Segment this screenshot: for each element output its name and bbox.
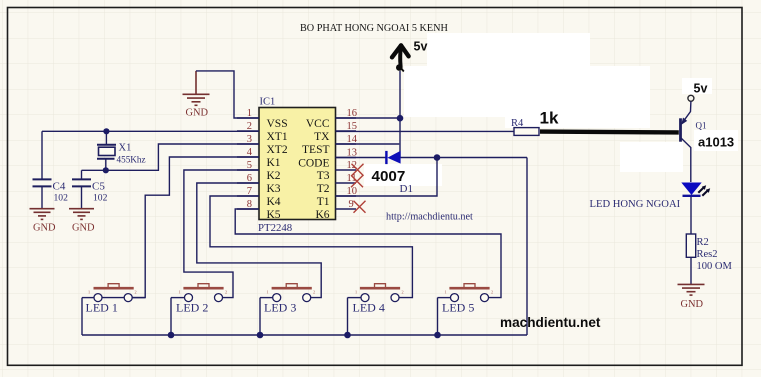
svg-text:VSS: VSS (267, 118, 288, 130)
svg-text:T2: T2 (317, 183, 330, 195)
node D1 junction (434, 154, 441, 161)
pin numbers left (247, 108, 253, 210)
svg-text:GND: GND (33, 223, 56, 234)
wire LED1 to rail (81, 298, 83, 335)
svg-text:2: 2 (225, 290, 227, 295)
wire TEST (pin14) (336, 143, 400, 145)
wire XT1 rail (pin2) (42, 130, 259, 132)
svg-text:11: 11 (347, 173, 357, 184)
svg-text:LED 1: LED 1 (86, 301, 118, 315)
svg-text:GND: GND (681, 299, 704, 310)
svg-text:13: 13 (347, 147, 358, 158)
pin numbers right (347, 108, 358, 210)
svg-text:a1013: a1013 (698, 135, 734, 150)
svg-text:1: 1 (179, 290, 181, 295)
IC1 PT2248 (259, 108, 336, 220)
wire TX (pin15) to R4 (336, 130, 515, 132)
svg-text:102: 102 (54, 193, 69, 204)
button LED 1 (82, 284, 145, 315)
svg-text:VCC: VCC (306, 118, 330, 130)
node rail LED3 (257, 332, 264, 339)
svg-text:1: 1 (267, 290, 269, 295)
ground (bottom right) (678, 284, 705, 295)
svg-text:2: 2 (402, 290, 404, 295)
wire thick hand-drawn R4 to Q1 base (540, 129, 679, 134)
svg-text:XT1: XT1 (267, 131, 288, 143)
svg-text:http://machdientu.net: http://machdientu.net (386, 212, 473, 223)
svg-text:X1: X1 (119, 143, 132, 154)
ground under C4 (30, 209, 55, 220)
svg-text:6: 6 (247, 173, 252, 184)
svg-text:12: 12 (347, 160, 358, 171)
svg-text:16: 16 (347, 108, 358, 119)
capacitor C4 (33, 131, 52, 208)
node X1 bottom (103, 167, 109, 173)
svg-text:5v: 5v (414, 40, 428, 54)
svg-text:TX: TX (314, 131, 330, 143)
svg-text:LED 2: LED 2 (176, 301, 208, 315)
wire VCC (pin16) (336, 117, 401, 119)
no-connect X pin11 (351, 175, 363, 187)
svg-text:2: 2 (491, 290, 493, 295)
ground under C5 (69, 209, 94, 220)
svg-text:R2: R2 (697, 237, 709, 248)
svg-text:LED 5: LED 5 (442, 301, 474, 315)
crystal X1 (97, 131, 116, 170)
button LED 5 (438, 284, 494, 315)
wire T1 (pin10) to junction (336, 158, 438, 197)
power 5v arrow (hand drawn) (392, 45, 409, 66)
diode D1 (385, 151, 387, 164)
svg-text:Q1: Q1 (696, 121, 707, 131)
svg-text:T3: T3 (317, 170, 330, 182)
wire D1 anode to riser (401, 157, 528, 159)
svg-text:9: 9 (349, 199, 354, 210)
svg-text:2: 2 (313, 290, 315, 295)
resistor R4 (514, 128, 539, 136)
no-connect X pin9 (354, 201, 366, 213)
node rail LED5 (434, 332, 441, 339)
wire XT2 (pin3) (82, 144, 260, 170)
wire 5v rail vertical (399, 71, 401, 158)
no-connect X pin12 (352, 164, 364, 176)
svg-text:1: 1 (247, 108, 252, 119)
LED infrared (681, 183, 701, 196)
svg-text:LED 3: LED 3 (264, 301, 296, 315)
wire LED2 to rail (170, 298, 172, 335)
svg-text:TEST: TEST (302, 144, 329, 156)
svg-text:K1: K1 (267, 157, 281, 169)
pin stubs right (336, 118, 357, 209)
svg-text:3: 3 (247, 134, 252, 145)
wire R2 to ground (690, 257, 692, 284)
wire CODE (pin13) to D1 (336, 157, 387, 159)
white patch behind 4007 (364, 164, 442, 186)
svg-text:455Khz: 455Khz (117, 154, 146, 164)
wire LED3 to rail (259, 298, 261, 335)
svg-text:Res2: Res2 (697, 249, 718, 260)
button LED 4 (348, 284, 404, 315)
svg-text:LED 4: LED 4 (353, 301, 385, 315)
button LED 3 (260, 284, 315, 315)
white patch behind 5v at Q1 (682, 78, 712, 94)
svg-text:D1: D1 (400, 183, 413, 195)
svg-text:BO PHAT HONG NGOAI 5 KENH: BO PHAT HONG NGOAI 5 KENH (300, 23, 448, 34)
node X1 top (103, 128, 109, 134)
node rail LED2 (168, 332, 175, 339)
white patch left of Q1 (620, 142, 683, 172)
svg-text:7: 7 (247, 186, 252, 197)
white patch behind a1013 (694, 130, 738, 151)
svg-text:1: 1 (445, 290, 447, 295)
svg-text:5v: 5v (694, 82, 708, 96)
wire GND to pin1 (196, 71, 259, 118)
svg-text:IC1: IC1 (260, 97, 276, 108)
button LED 2 (171, 284, 227, 315)
svg-text:1: 1 (88, 290, 90, 295)
wire LED5 to rail (437, 298, 439, 335)
svg-text:4: 4 (247, 147, 253, 158)
svg-text:15: 15 (347, 121, 358, 132)
svg-text:C5: C5 (92, 181, 105, 193)
svg-text:R4: R4 (511, 118, 524, 129)
wire K4 (pin7) to LED4 button (210, 196, 412, 298)
svg-text:machdientu.net: machdientu.net (500, 315, 601, 330)
white patch center (404, 66, 650, 117)
pin labels left column (267, 118, 288, 221)
wire LED to R2 (690, 197, 692, 234)
wire K1 (pin4) to LED1 button (94, 157, 259, 298)
svg-text:K3: K3 (267, 183, 281, 195)
node VCC junction (397, 115, 404, 122)
svg-text:GND: GND (186, 108, 209, 119)
svg-text:K5: K5 (267, 209, 281, 221)
svg-text:102: 102 (93, 193, 108, 204)
svg-text:K2: K2 (267, 170, 281, 182)
svg-text:5: 5 (247, 160, 252, 171)
white patch near R4 (505, 108, 650, 128)
resistor R2 (686, 234, 695, 257)
svg-text:K4: K4 (267, 196, 281, 208)
wire K2 (pin5) to LED2 button (184, 170, 259, 298)
svg-text:GND: GND (72, 223, 95, 234)
ground (top, pin1 net) (183, 71, 210, 105)
svg-text:C4: C4 (53, 181, 66, 193)
svg-text:LED HONG NGOAI: LED HONG NGOAI (590, 199, 681, 210)
svg-text:2: 2 (247, 121, 252, 132)
svg-text:100 OM: 100 OM (697, 261, 733, 272)
svg-text:T1: T1 (317, 196, 330, 208)
capacitor C5 (72, 170, 91, 208)
wire K5 (pin8) to LED5 button (235, 209, 501, 298)
wire riser to bottom rail (526, 158, 528, 336)
svg-text:CODE: CODE (298, 157, 329, 169)
svg-text:1k: 1k (540, 108, 559, 127)
pin stubs left (237, 118, 259, 209)
transistor Q1 (679, 118, 682, 141)
svg-text:K6: K6 (315, 209, 329, 221)
pin labels right column (298, 118, 330, 221)
svg-text:14: 14 (347, 134, 358, 145)
svg-text:XT2: XT2 (267, 144, 288, 156)
svg-text:1: 1 (355, 290, 357, 295)
node rail LED4 (344, 332, 351, 339)
wire bottom common rail (82, 334, 527, 336)
wire LED4 to rail (347, 298, 349, 335)
svg-text:PT2248: PT2248 (258, 222, 292, 234)
svg-text:8: 8 (247, 199, 252, 210)
white patch over title area (427, 33, 590, 67)
svg-text:2: 2 (135, 290, 137, 295)
wire K3 (pin6) to LED3 button (197, 183, 321, 298)
